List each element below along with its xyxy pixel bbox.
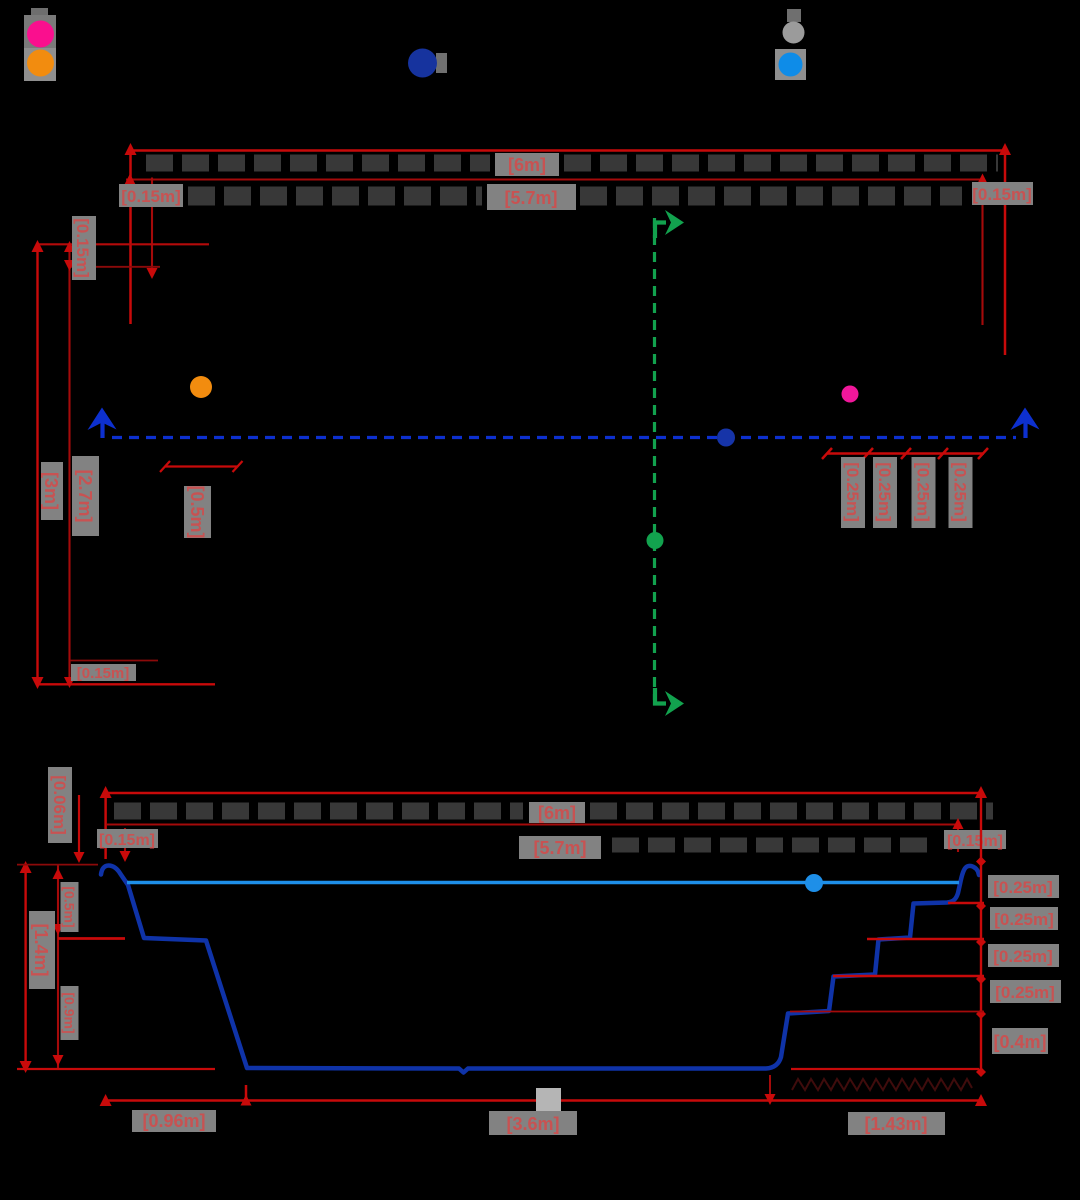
svg-text:[2.7m]: [2.7m] (75, 469, 95, 522)
profile rotated label 0.9m (61, 986, 79, 1040)
svg-text:[0.5m]: [0.5m] (62, 886, 78, 927)
profile bottom label 1.43m (848, 1112, 945, 1135)
svg-text:[0.25m]: [0.25m] (914, 462, 933, 522)
plan right step chain dim (822, 448, 988, 459)
profile pool shell (101, 866, 979, 1073)
plan label 5.7m (487, 184, 576, 210)
plan dim 5.7m line (126, 177, 983, 325)
plan rotated step label 0.25m (4) (949, 457, 973, 528)
legend orange dot (27, 50, 54, 77)
profile depth label 0.25m (2) (990, 907, 1058, 930)
profile depth label 0.25m (3) (988, 944, 1059, 967)
plan green arrow bottom (655, 688, 684, 716)
svg-text:[0.25m]: [0.25m] (993, 947, 1053, 966)
profile step extension y939 (867, 938, 984, 940)
profile step extension y1011 (790, 1011, 984, 1013)
svg-text:[0.15m]: [0.15m] (99, 832, 155, 849)
profile rotated label 0.5m (61, 882, 79, 932)
plan rotated label 0.15m wall top-left (72, 216, 96, 280)
profile left outer depth dim 1.4m (24, 865, 26, 1069)
svg-text:[5.7m]: [5.7m] (533, 838, 586, 858)
profile depth label 0.25m (4) (990, 980, 1061, 1003)
svg-text:[0.15m]: [0.15m] (73, 218, 92, 278)
profile drain mark background (536, 1088, 561, 1111)
svg-text:[6m]: [6m] (538, 803, 576, 823)
plan rotated label 2.7m (72, 456, 99, 536)
plan section line green dashed (653, 218, 656, 700)
faint imperial text row profile 5.7m (612, 838, 935, 853)
svg-text:[3m]: [3m] (41, 472, 61, 510)
svg-text:[6m]: [6m] (508, 155, 546, 175)
legend pink dot (27, 21, 54, 48)
svg-text:[0.15m]: [0.15m] (972, 185, 1032, 204)
plan small dim 0.5m (160, 461, 243, 472)
plan green dot (647, 532, 664, 549)
svg-text:[0.25m]: [0.25m] (951, 462, 970, 522)
profile bottom label 0.96m (132, 1110, 216, 1132)
profile step extension y903 (948, 902, 984, 904)
legend orange marker background (24, 48, 56, 81)
legend gray marker background (787, 9, 801, 22)
profile waterline dot (805, 874, 823, 892)
plan label 6m (495, 153, 559, 176)
svg-text:[0.96m]: [0.96m] (142, 1111, 205, 1131)
svg-text:[0.9m]: [0.9m] (62, 992, 78, 1033)
plan left extension bottom inner (70, 660, 158, 662)
plan left extension bottom outer (37, 683, 215, 685)
faint imperial text row plan 5.7m (188, 187, 962, 206)
plan label 0.15m left (119, 184, 183, 207)
profile label 0.15m left (97, 829, 158, 849)
svg-text:[0.25m]: [0.25m] (993, 878, 1053, 897)
svg-text:[3.6m]: [3.6m] (506, 1114, 559, 1134)
faint imperial text row profile 6m (114, 803, 993, 820)
svg-text:[0.15m]: [0.15m] (947, 833, 1003, 850)
plan magenta dot (842, 386, 859, 403)
profile rotated label 0.06m (48, 767, 72, 843)
svg-text:[1.4m]: [1.4m] (31, 923, 51, 976)
profile step extension y976 (833, 975, 984, 977)
svg-text:[0.25m]: [0.25m] (843, 462, 862, 522)
legend gray dot (783, 22, 805, 44)
profile depth label 0.4m (992, 1028, 1048, 1054)
plan rotated step label 0.25m (1) (841, 457, 865, 528)
profile dim 6m line (106, 790, 981, 859)
svg-text:[0.5m]: [0.5m] (187, 485, 207, 538)
svg-text:[1.43m]: [1.43m] (864, 1114, 927, 1134)
plan orange dot (190, 376, 212, 398)
profile extension ledge level (58, 937, 125, 940)
profile label 5.7m (519, 836, 601, 859)
svg-text:[0.06m]: [0.06m] (50, 775, 69, 835)
chain arrow marks (976, 857, 986, 1078)
plan dim 6m line (131, 147, 1006, 355)
svg-text:[0.15m]: [0.15m] (77, 665, 130, 682)
profile left inner depth dim (57, 865, 59, 1069)
legend pink marker background (24, 8, 56, 48)
profile waterline (127, 881, 959, 884)
plan left inner height dim (68, 244, 70, 685)
plan section arrow left (88, 408, 117, 439)
plan left extension top inner (69, 266, 160, 268)
profile bottom label 3.6m (489, 1111, 577, 1135)
svg-text:[0.4m]: [0.4m] (993, 1032, 1046, 1052)
legend light-blue marker background (775, 49, 806, 80)
plan section centerline blue dashed (112, 436, 1016, 439)
svg-text:[0.25m]: [0.25m] (995, 983, 1055, 1002)
plan section arrow right (1011, 408, 1040, 439)
profile lip height dim 0.06m (78, 795, 80, 858)
svg-text:[5.7m]: [5.7m] (504, 188, 557, 208)
plan rotated step label 0.25m (3) (912, 457, 936, 528)
plan left outer height dim (36, 244, 38, 685)
profile extension bottom level left (17, 1068, 215, 1070)
plan rotated label 3m (41, 462, 63, 520)
plan label 0.15m bottom-left (71, 664, 136, 682)
faint imperial text row plan 6m (146, 155, 998, 172)
profile bottom dim line (106, 1099, 981, 1101)
bottom dim ticks (100, 1094, 112, 1106)
profile dim 5.7m line (106, 820, 958, 858)
plan navy dot on centerline (717, 429, 735, 447)
profile zigzag (792, 1079, 972, 1090)
profile steps bottom dim line (791, 1068, 979, 1070)
profile label 6m (529, 802, 585, 823)
plan rotated label 0.5m (184, 485, 211, 538)
legend dark-blue marker background (436, 53, 447, 73)
plan label 0.15m right (972, 182, 1033, 205)
svg-text:[0.25m]: [0.25m] (875, 462, 894, 522)
plan rotated step label 0.25m (2) (873, 457, 897, 528)
svg-text:[0.15m]: [0.15m] (121, 187, 181, 206)
profile right depth chain dim (980, 793, 982, 1071)
profile depth label 0.25m (1) (988, 875, 1059, 898)
plan left extension top outer (37, 243, 209, 245)
legend light-blue dot (779, 53, 803, 77)
legend dark-blue dot (408, 49, 437, 78)
profile rotated label 1.4m (29, 911, 55, 989)
profile label 0.15m right (944, 830, 1006, 850)
svg-text:[0.25m]: [0.25m] (994, 910, 1054, 929)
plan green arrow top (655, 210, 684, 238)
profile extension deck level (17, 864, 98, 866)
